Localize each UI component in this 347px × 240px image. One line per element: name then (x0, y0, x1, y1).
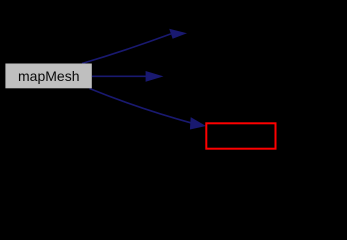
svg-text:mapMesh: mapMesh (18, 68, 79, 84)
